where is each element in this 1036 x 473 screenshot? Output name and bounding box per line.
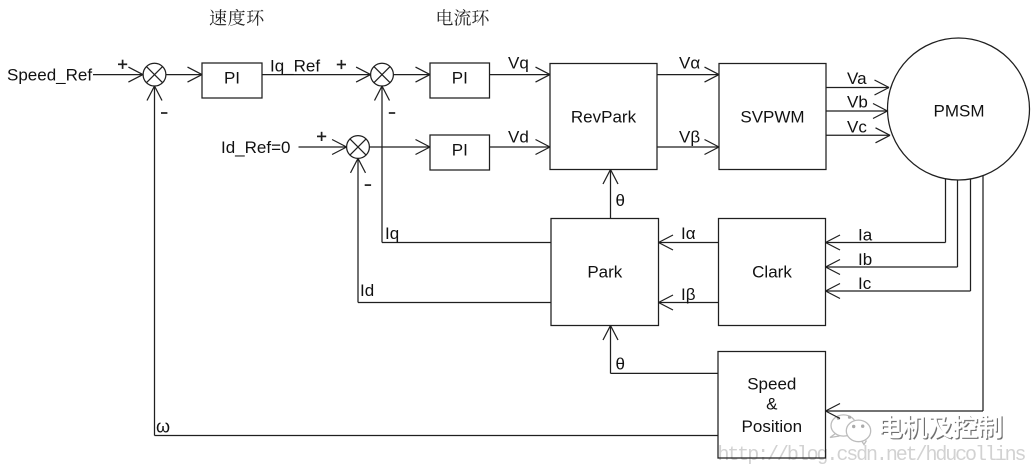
svg-text:Vc: Vc <box>847 117 867 136</box>
svg-text:Ib: Ib <box>858 250 872 269</box>
svg-text:Position: Position <box>742 417 802 436</box>
svg-text:Iα: Iα <box>681 224 696 243</box>
svg-text:http://blog.csdn.net/hducollin: http://blog.csdn.net/hducollins <box>718 444 1026 467</box>
svg-text:Vb: Vb <box>847 93 868 112</box>
svg-text:PI: PI <box>452 69 468 88</box>
svg-text:&: & <box>766 395 778 414</box>
svg-text:θ: θ <box>616 191 625 210</box>
svg-text:Vd: Vd <box>508 128 529 147</box>
svg-text:SVPWM: SVPWM <box>740 108 804 127</box>
svg-text:Park: Park <box>587 263 622 282</box>
svg-text:Id: Id <box>360 281 374 300</box>
svg-text:PI: PI <box>452 141 468 160</box>
svg-text:Speed_Ref: Speed_Ref <box>7 66 92 85</box>
svg-text:θ: θ <box>616 355 625 374</box>
svg-text:Iq: Iq <box>385 224 399 243</box>
svg-text:Iq_Ref: Iq_Ref <box>270 57 320 76</box>
svg-text:Vα: Vα <box>679 54 700 73</box>
svg-text:Vβ: Vβ <box>679 128 700 147</box>
svg-text:Clark: Clark <box>752 263 792 282</box>
svg-text:Ia: Ia <box>858 226 873 245</box>
svg-text:Id_Ref=0: Id_Ref=0 <box>221 138 290 157</box>
svg-text:Speed: Speed <box>747 375 796 394</box>
svg-text:Va: Va <box>847 69 867 88</box>
svg-text:RevPark: RevPark <box>571 108 637 127</box>
svg-text:Iβ: Iβ <box>681 285 696 304</box>
svg-text:ω: ω <box>156 416 170 436</box>
svg-text:Vq: Vq <box>508 54 529 73</box>
svg-text:PMSM: PMSM <box>934 102 985 121</box>
svg-text:Ic: Ic <box>858 274 872 293</box>
svg-text:PI: PI <box>224 69 240 88</box>
